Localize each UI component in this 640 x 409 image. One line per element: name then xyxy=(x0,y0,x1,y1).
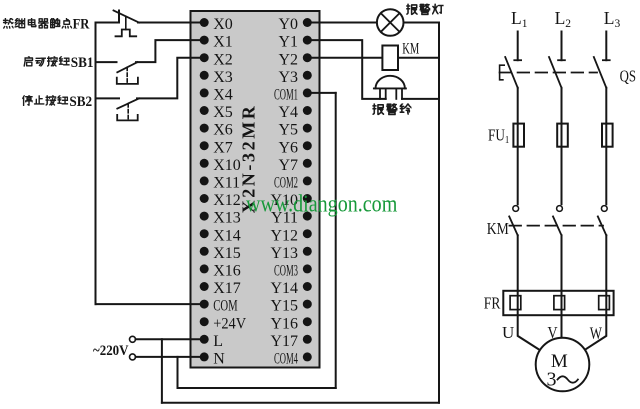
wire bottom return line xyxy=(162,402,439,404)
svg-text:Y14: Y14 xyxy=(270,280,298,297)
PLC module X2N-32MR body xyxy=(191,11,320,368)
svg-text:X17: X17 xyxy=(213,280,241,297)
switch QS link dashed xyxy=(500,72,597,74)
wire COM to left bus xyxy=(96,303,205,305)
phase line pole1 through fuse xyxy=(517,88,519,204)
svg-text:www.diangon.com: www.diangon.com xyxy=(246,190,398,217)
svg-text:FR: FR xyxy=(484,295,501,312)
motor 3~ wave xyxy=(558,376,578,382)
svg-text:X13: X13 xyxy=(213,210,241,227)
svg-text:Y3: Y3 xyxy=(278,69,298,86)
svg-text:SB2: SB2 xyxy=(69,93,92,110)
contactor KM contact hook pole3 xyxy=(601,206,607,212)
wire N drop xyxy=(177,357,179,388)
alarm lamp xyxy=(377,9,404,36)
svg-text:Y6: Y6 xyxy=(278,139,298,156)
svg-text:COM: COM xyxy=(213,297,237,315)
wire pole2 through FR to motor V xyxy=(561,291,563,338)
svg-text:Y17: Y17 xyxy=(270,333,298,350)
FR heater pole2 xyxy=(554,296,565,310)
contactor KM blade pole2 xyxy=(553,216,562,235)
motor M circle xyxy=(536,338,590,392)
svg-text:X1: X1 xyxy=(213,34,233,51)
wire COM1 drop xyxy=(335,93,337,388)
svg-text:X11: X11 xyxy=(213,175,240,192)
alarm bell xyxy=(374,76,406,99)
wire middle return line xyxy=(178,387,336,389)
svg-text:X7: X7 xyxy=(213,139,233,156)
phase L3 fixed contact bar xyxy=(603,59,610,61)
AC source terminal upper xyxy=(130,336,136,342)
phase L3 line top xyxy=(605,32,607,61)
svg-text:COM4: COM4 xyxy=(274,350,298,367)
phase L2 fixed contact bar xyxy=(558,59,565,61)
svg-text:Y12: Y12 xyxy=(270,227,298,244)
wire lamp to bus xyxy=(404,22,440,24)
thermal relay contact FR (NC) xyxy=(114,11,140,37)
thermal overload FR box xyxy=(503,291,613,315)
switch QS blade pole3 xyxy=(594,57,607,88)
label 启动按钮SB1 xyxy=(24,56,69,66)
fuse FU1 pole3 xyxy=(602,124,613,147)
wire pole3 KM to FR xyxy=(605,235,607,290)
svg-text:KM: KM xyxy=(487,220,510,238)
contactor KM contact hook pole1 xyxy=(513,206,519,212)
wire pole1 through FR to motor U xyxy=(518,291,540,350)
switch QS blade pole1 xyxy=(505,57,518,88)
svg-text:KM: KM xyxy=(402,39,419,57)
contactor KM blade pole3 xyxy=(598,216,607,235)
wire L drop to bottom return xyxy=(161,339,163,402)
wire Y0 to lamp xyxy=(307,22,377,24)
label output terminal names xyxy=(270,16,298,367)
switch QS blade pole2 xyxy=(549,57,562,88)
svg-text:Y1: Y1 xyxy=(278,34,298,51)
wire source to N xyxy=(136,356,205,358)
wire Y1 down to bell left xyxy=(307,40,385,99)
pushbutton SB2 (stop, NO) xyxy=(117,98,139,120)
FR heater pole1 xyxy=(510,296,521,310)
svg-text:Y16: Y16 xyxy=(270,315,298,332)
wire SB1 row left segment xyxy=(96,61,117,63)
phase L1 fixed contact bar xyxy=(514,59,521,61)
wire SB2 to X2 xyxy=(137,58,205,99)
FR heater pole3 xyxy=(599,296,610,310)
svg-text:Y7: Y7 xyxy=(278,157,298,174)
svg-text:V: V xyxy=(548,324,559,343)
wire Y2 to KM coil xyxy=(307,57,382,59)
svg-text:X14: X14 xyxy=(213,227,241,244)
svg-text:N: N xyxy=(213,351,225,368)
wire pole3 through FR to motor W xyxy=(585,291,606,350)
svg-text:X6: X6 xyxy=(213,122,233,139)
node input terminals X0-N xyxy=(200,18,209,361)
svg-text:COM1: COM1 xyxy=(274,86,298,103)
phase L2 line top xyxy=(561,32,563,61)
wire FR row left segment xyxy=(96,22,120,24)
svg-text:Y13: Y13 xyxy=(270,245,298,262)
wire SB2 row left segment xyxy=(96,97,120,99)
svg-text:COM2: COM2 xyxy=(274,174,298,191)
node output terminals Y0-COM4 xyxy=(303,18,312,361)
label 报警灯 xyxy=(406,4,443,15)
svg-text:U: U xyxy=(502,323,514,342)
wire pole2 KM to FR xyxy=(561,235,563,290)
wire SB1 to X1 xyxy=(136,40,205,62)
label 停止按钮SB2 xyxy=(23,95,68,105)
svg-text:SB1: SB1 xyxy=(71,54,94,71)
svg-text:X4: X4 xyxy=(213,87,233,104)
svg-text:Y5: Y5 xyxy=(278,122,298,139)
svg-text:FR: FR xyxy=(73,16,91,32)
svg-text:QS: QS xyxy=(620,68,636,86)
wire COM1 stub xyxy=(307,92,335,94)
pushbutton SB1 (start, NO) xyxy=(117,62,138,84)
switch QS handle xyxy=(500,65,505,80)
contactor KM link dashed xyxy=(510,225,604,227)
AC source terminal lower xyxy=(130,354,136,360)
svg-text:W: W xyxy=(590,325,603,343)
contactor KM contact hook pole2 xyxy=(557,206,563,212)
svg-text:Y2: Y2 xyxy=(278,51,298,68)
label input terminal names xyxy=(213,16,246,367)
wire source to L xyxy=(136,338,205,340)
svg-text:X16: X16 xyxy=(213,263,241,280)
svg-text:X10: X10 xyxy=(213,157,241,174)
svg-text:L: L xyxy=(213,333,223,350)
wire right output bus xyxy=(438,23,440,403)
fuse FU1 pole2 xyxy=(557,124,568,147)
svg-text:Y0: Y0 xyxy=(278,16,298,33)
svg-text:X0: X0 xyxy=(213,16,233,33)
svg-text:Y15: Y15 xyxy=(270,298,298,315)
wire left bus vertical xyxy=(95,23,97,305)
wire FR contact to X0 xyxy=(138,22,205,24)
phase line pole2 through fuse xyxy=(561,88,563,204)
svg-text:COM3: COM3 xyxy=(274,262,298,279)
svg-text:+24V: +24V xyxy=(213,315,246,333)
contactor KM blade pole1 xyxy=(509,216,518,235)
svg-text:X15: X15 xyxy=(213,245,241,262)
contactor coil KM xyxy=(382,46,398,71)
phase line pole3 through fuse xyxy=(605,88,607,204)
wire KM coil to bus xyxy=(398,57,439,59)
svg-text:~220V: ~220V xyxy=(93,343,129,359)
svg-text:X5: X5 xyxy=(213,104,233,121)
fuse FU1 pole1 xyxy=(513,124,524,147)
wire pole1 KM to FR xyxy=(517,235,519,290)
svg-text:Y4: Y4 xyxy=(278,104,298,121)
phase L1 line top xyxy=(517,32,519,61)
svg-text:X12: X12 xyxy=(213,192,241,209)
svg-text:X3: X3 xyxy=(213,69,233,86)
svg-text:3: 3 xyxy=(547,369,557,391)
svg-text:X2: X2 xyxy=(213,51,233,68)
label 报警铃 xyxy=(373,103,412,114)
wire bell right to bus xyxy=(402,98,439,100)
label 热继电器触点FR xyxy=(3,18,71,28)
